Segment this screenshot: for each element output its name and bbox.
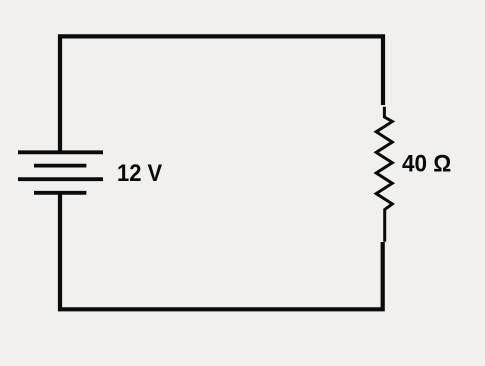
battery V1: short plate (bottom, negative) (34, 191, 86, 195)
svg-text:12 V: 12 V (117, 160, 162, 187)
battery V1: long plate (top, positive) (18, 150, 103, 154)
battery V1: short plate (34, 164, 86, 168)
wire: bottom loop (battery - down, bottom horizontal, right vertical up to resistor bottom lead) (60, 193, 383, 309)
svg-text:40 Ω: 40 Ω (402, 151, 451, 178)
battery V1: long plate (18, 177, 103, 181)
resistor R1 (zigzag with leads) (376, 107, 392, 242)
wire: top loop (left vertical down to battery +, top horizontal, right vertical to resistor top lead) (60, 36, 383, 152)
